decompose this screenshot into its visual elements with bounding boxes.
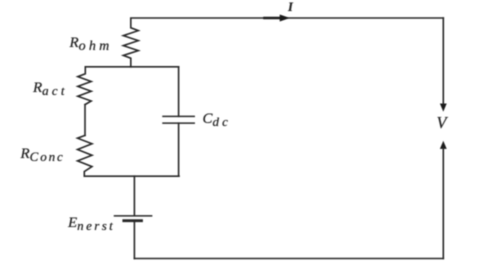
resistor R_ohm	[123, 19, 138, 67]
label V	[437, 115, 447, 132]
wire between R_act and R_Conc	[84, 105, 86, 136]
wire parallel section bottom	[84, 175, 179, 177]
label R_act	[33, 81, 68, 96]
wire capacitor branch upper	[178, 67, 180, 117]
wire bottom horizontal	[134, 258, 443, 260]
arrowhead up V	[440, 142, 446, 149]
resistor R_Conc	[78, 135, 93, 176]
wire right lower (V- lead)	[442, 148, 444, 259]
wire capacitor branch lower	[178, 123, 180, 176]
label I	[288, 1, 293, 14]
wire top horizontal	[131, 17, 444, 19]
label R_Conc	[21, 147, 65, 162]
wire right upper (V+ lead)	[442, 18, 444, 105]
capacitor C_dc	[163, 116, 194, 123]
wire battery stem lower	[133, 221, 135, 259]
battery E_nerst	[115, 216, 152, 221]
arrowhead down V	[440, 104, 446, 111]
wire battery stem upper	[133, 176, 135, 215]
label E_nerst	[68, 216, 115, 231]
label R_ohm	[70, 36, 113, 51]
wire parallel section top	[85, 66, 178, 68]
resistor R_act	[78, 67, 91, 105]
label C_dc	[203, 112, 232, 127]
current arrow I	[265, 15, 290, 21]
